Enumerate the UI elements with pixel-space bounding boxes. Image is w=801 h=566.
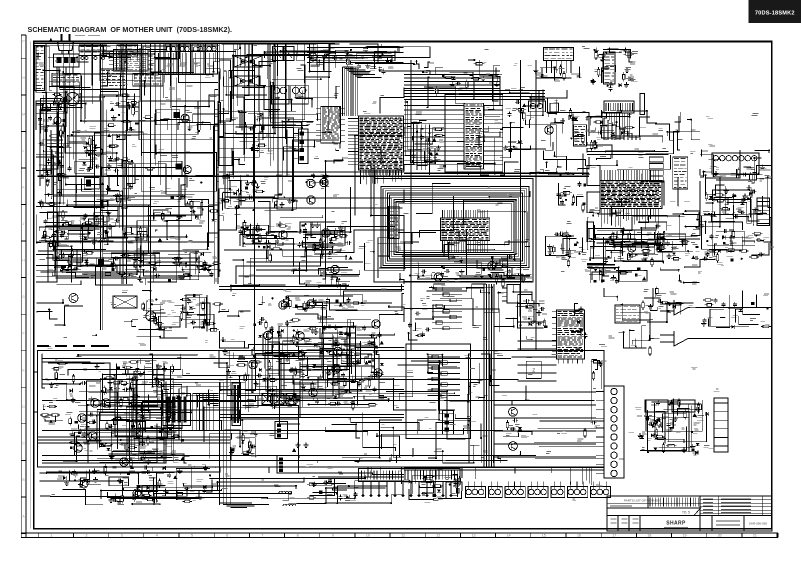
svg-text:3: 3	[121, 534, 123, 538]
svg-text:19: 19	[683, 534, 687, 538]
svg-text:5: 5	[191, 534, 193, 538]
svg-text:J: J	[23, 222, 25, 226]
svg-text:PARTS LIST OF MOTHER: PARTS LIST OF MOTHER	[624, 499, 661, 503]
svg-text:Z: Z	[532, 368, 535, 373]
svg-text:G: G	[22, 295, 25, 299]
svg-text:SCHEMATIC DIAGRAM OF MOTHER U: SCHEMATIC DIAGRAM OF MOTHER UNIT (70DS-1…	[28, 25, 233, 34]
svg-text:11: 11	[401, 534, 405, 538]
svg-text:SAR-056-565: SAR-056-565	[749, 522, 768, 526]
svg-text:16: 16	[577, 534, 581, 538]
svg-text:70DS-18SMK2: 70DS-18SMK2	[755, 11, 795, 17]
svg-text:20: 20	[718, 534, 722, 538]
svg-text:4: 4	[156, 534, 158, 538]
svg-text:6: 6	[226, 534, 228, 538]
svg-text:1: 1	[50, 534, 52, 538]
svg-text:8: 8	[297, 534, 299, 538]
svg-text:13: 13	[472, 534, 476, 538]
svg-text:15: 15	[542, 534, 546, 538]
svg-text:9: 9	[332, 534, 334, 538]
svg-text:L: L	[23, 149, 25, 153]
svg-text:17: 17	[612, 534, 616, 538]
svg-text:12: 12	[436, 534, 440, 538]
svg-text:7: 7	[261, 534, 263, 538]
svg-text:F: F	[22, 332, 24, 336]
svg-text:2: 2	[86, 534, 88, 538]
svg-text:M: M	[22, 112, 25, 116]
svg-text:21: 21	[753, 534, 757, 538]
svg-text:14: 14	[507, 534, 511, 538]
svg-text:10: 10	[366, 534, 370, 538]
svg-text:TO. 5: TO. 5	[682, 511, 690, 515]
svg-text:18: 18	[647, 534, 651, 538]
svg-text:SHARP: SHARP	[666, 521, 686, 527]
